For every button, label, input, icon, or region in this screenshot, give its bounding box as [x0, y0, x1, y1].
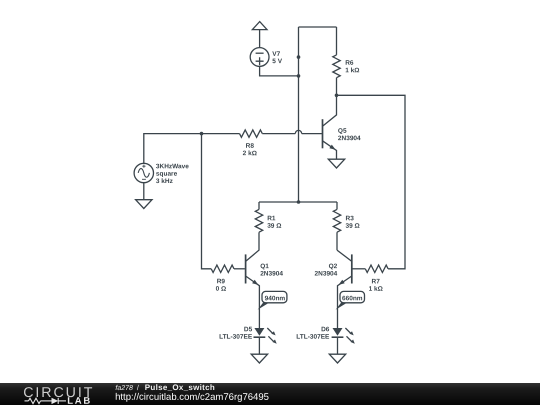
- svg-text:0 Ω: 0 Ω: [216, 286, 227, 293]
- svg-text:fa278 / Pulse_Ox_switch: fa278 / Pulse_Ox_switch: [115, 383, 215, 392]
- svg-text:http://circuitlab.com/c2am76rg: http://circuitlab.com/c2am76rg76495: [115, 392, 269, 403]
- svg-text:660nm: 660nm: [342, 295, 363, 302]
- svg-text:2N3904: 2N3904: [260, 271, 283, 278]
- svg-text:D6: D6: [321, 326, 330, 333]
- svg-text:2N3904: 2N3904: [315, 270, 338, 277]
- svg-text:R9: R9: [217, 278, 226, 285]
- svg-text:3 kHz: 3 kHz: [156, 178, 174, 185]
- svg-text:R8: R8: [246, 143, 255, 150]
- svg-text:R1: R1: [267, 215, 276, 222]
- svg-text:square: square: [156, 171, 178, 178]
- svg-text:LTL-307EE: LTL-307EE: [296, 334, 330, 341]
- svg-text:39 Ω: 39 Ω: [267, 223, 281, 230]
- svg-text:2 kΩ: 2 kΩ: [243, 150, 257, 157]
- svg-text:Q5: Q5: [338, 128, 347, 135]
- svg-text:5 V: 5 V: [272, 58, 282, 65]
- svg-text:1 kΩ: 1 kΩ: [369, 286, 383, 293]
- svg-text:R7: R7: [372, 278, 381, 285]
- svg-text:940nm: 940nm: [265, 295, 286, 302]
- svg-text:3KHzWave: 3KHzWave: [156, 163, 189, 170]
- svg-text:39 Ω: 39 Ω: [345, 223, 359, 230]
- svg-text:Q1: Q1: [260, 263, 269, 270]
- svg-text:R6: R6: [345, 60, 354, 67]
- svg-text:D5: D5: [244, 326, 253, 333]
- svg-text:V7: V7: [272, 51, 280, 58]
- svg-text:1 kΩ: 1 kΩ: [345, 67, 359, 74]
- svg-text:R3: R3: [345, 215, 354, 222]
- svg-text:2N3904: 2N3904: [338, 135, 361, 142]
- svg-text:LTL-307EE: LTL-307EE: [219, 334, 253, 341]
- svg-text:LAB: LAB: [67, 396, 92, 405]
- svg-text:Q2: Q2: [329, 263, 338, 270]
